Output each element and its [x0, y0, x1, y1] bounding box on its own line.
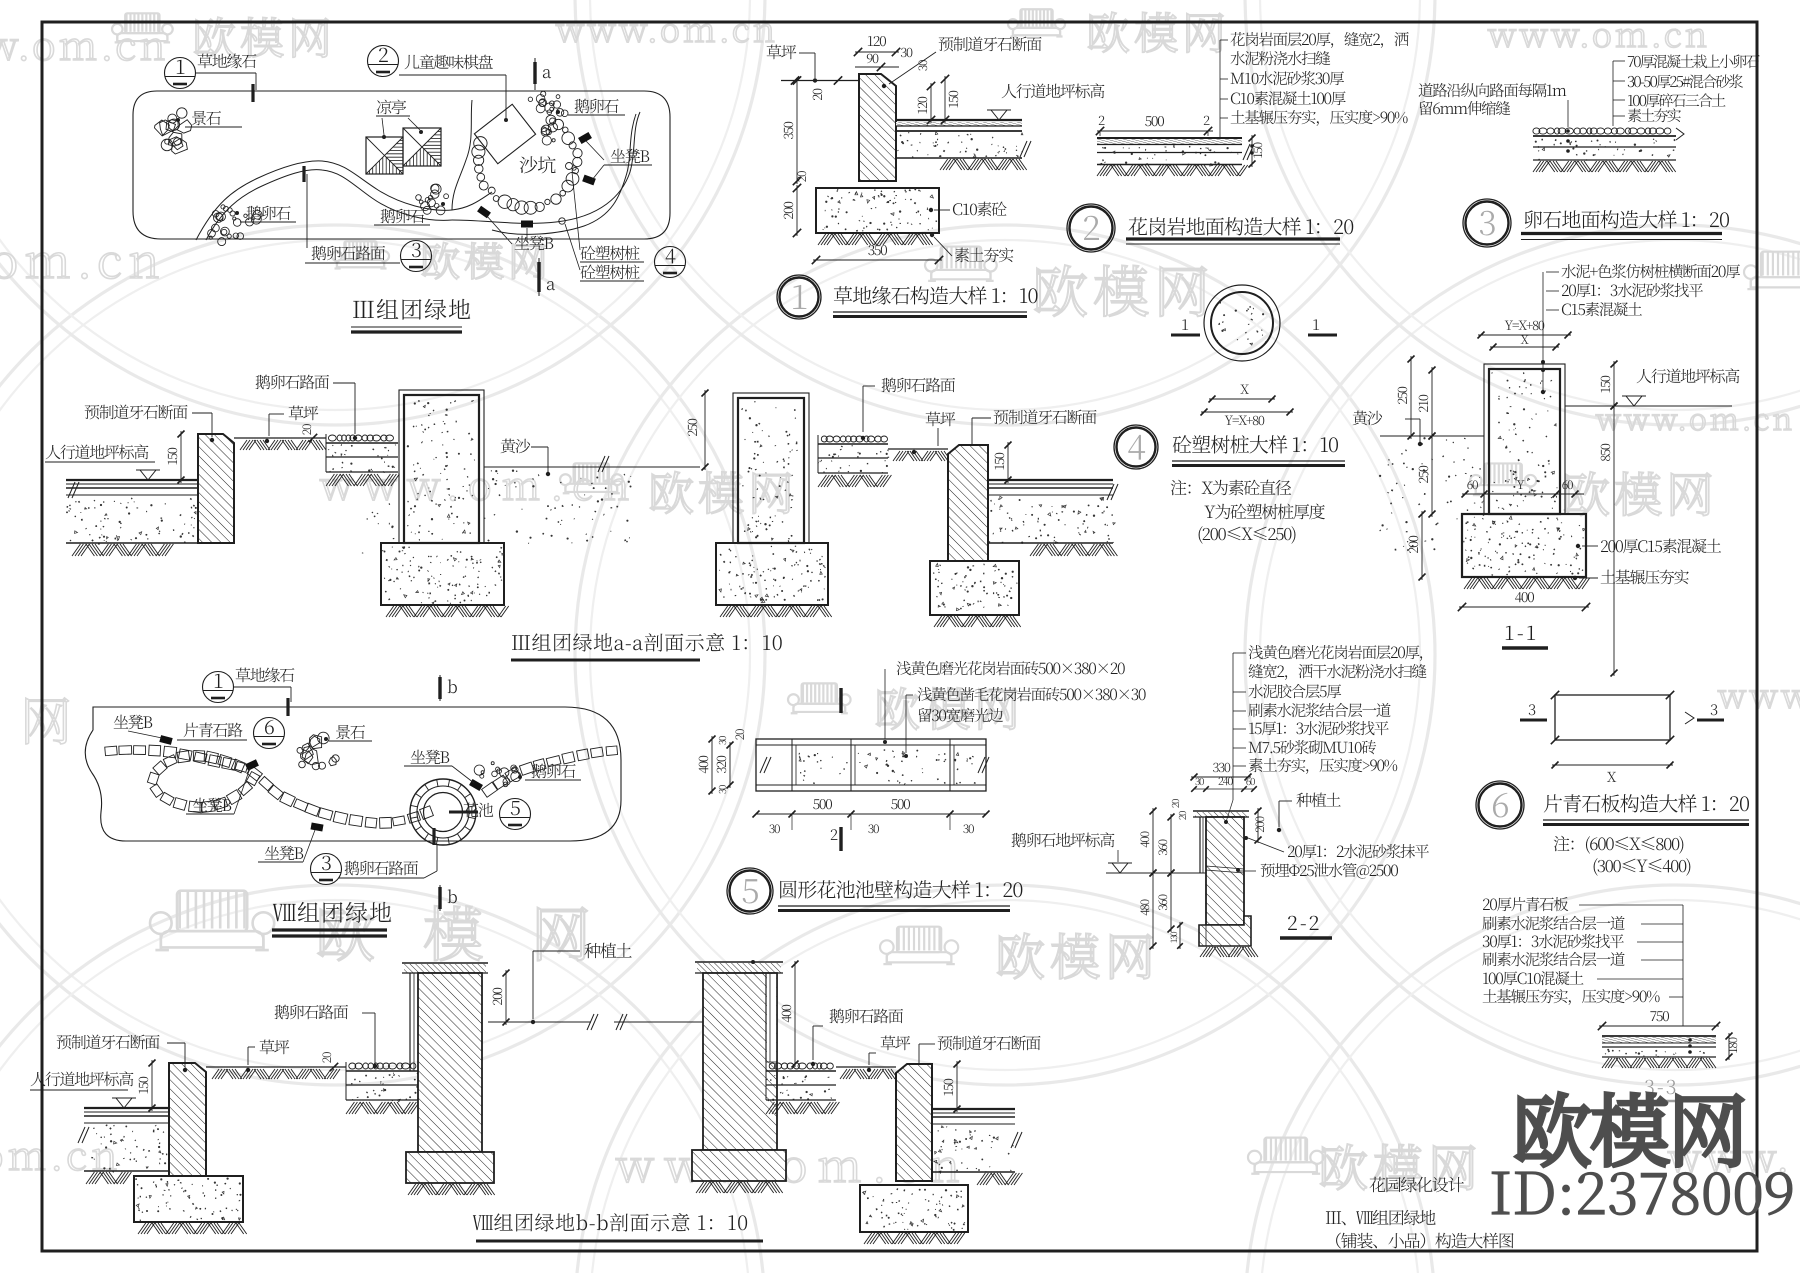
svg-text:人行道地坪标高: 人行道地坪标高 — [1636, 364, 1740, 387]
pebble pavement a-a left — [328, 435, 393, 441]
svg-text:750: 750 — [1650, 1006, 1670, 1026]
svg-text:400: 400 — [1136, 831, 1153, 847]
svg-text:2: 2 — [378, 39, 388, 68]
section marker b bottom — [439, 885, 441, 911]
svg-text:卵石地面构造大样 1：20: 卵石地面构造大样 1：20 — [1523, 204, 1729, 233]
detail 5 left dims — [711, 736, 713, 794]
svg-text:草地缘石构造大样 1：10: 草地缘石构造大样 1：10 — [833, 280, 1038, 309]
section 1-1 footing — [1462, 514, 1586, 577]
b-b left pool wall body — [418, 973, 482, 1152]
svg-text:素土夯实，压实度>90%: 素土夯实，压实度>90% — [1248, 754, 1398, 776]
svg-text:30: 30 — [714, 736, 729, 745]
svg-text:预制道牙石断面: 预制道牙石断面 — [937, 1031, 1041, 1054]
svg-text:（铺装、小品）构造大样图: （铺装、小品）构造大样图 — [1325, 1227, 1514, 1252]
2-2 tile strip left — [1199, 817, 1201, 873]
svg-text:4: 4 — [665, 240, 676, 269]
pebbles on lower path 鹅卵石 — [214, 213, 224, 223]
b-b right wall footing — [692, 1150, 786, 1181]
small stump circles — [566, 163, 573, 170]
svg-text:3: 3 — [1710, 699, 1718, 720]
detail 4 plan dims — [1209, 398, 1275, 400]
svg-text:240: 240 — [1218, 773, 1233, 789]
grass line a-a right — [888, 448, 948, 450]
svg-text:150: 150 — [943, 90, 962, 108]
svg-text:1: 1 — [175, 51, 185, 80]
svg-text:1: 1 — [1181, 314, 1189, 335]
svg-text:130: 130 — [1167, 931, 1180, 943]
section marker a top — [534, 58, 536, 90]
dims left 250 210 — [1410, 356, 1412, 439]
svg-text:预制道牙石断面: 预制道牙石断面 — [993, 405, 1097, 428]
svg-text:土基辗压夯实，压实度>90%: 土基辗压夯实，压实度>90% — [1482, 985, 1660, 1007]
svg-text:人行道地坪标高: 人行道地坪标高 — [30, 1067, 134, 1090]
b-b grass line left — [206, 1066, 346, 1068]
b-b left sidewalk — [84, 1107, 169, 1109]
svg-text:250: 250 — [682, 418, 701, 436]
svg-text:150: 150 — [133, 1076, 152, 1094]
svg-text:花池: 花池 — [463, 798, 494, 821]
svg-text:坐凳B: 坐凳B — [410, 745, 449, 768]
svg-text:3: 3 — [1528, 699, 1536, 720]
dim 60 Y 60 — [1462, 493, 1584, 495]
svg-text:坐凳B: 坐凳B — [113, 710, 152, 733]
title detail 4 — [1114, 425, 1158, 469]
stepping stone path VIII — [105, 746, 118, 756]
svg-text:种植土: 种植土 — [584, 937, 632, 962]
svg-text:b: b — [447, 883, 457, 908]
svg-text:草坪: 草坪 — [259, 1035, 290, 1058]
svg-text:200: 200 — [778, 201, 797, 219]
svg-text:Ⅲ组团绿地a-a剖面示意 1：10: Ⅲ组团绿地a-a剖面示意 1：10 — [511, 627, 783, 656]
svg-text:鹅卵石路面: 鹅卵石路面 — [274, 1000, 349, 1023]
detail 2: pavement section — [1097, 137, 1242, 139]
callout 4 circle — [655, 247, 686, 278]
surface line right (sidewalk level) — [1565, 405, 1732, 407]
svg-text:20: 20 — [1167, 799, 1182, 808]
dim 400 right wall — [794, 961, 796, 1067]
b-b left wall tile strip — [409, 973, 411, 1071]
svg-text:60: 60 — [1467, 476, 1478, 493]
b-b right curb — [896, 1064, 932, 1181]
svg-text:鹅卵石路面: 鹅卵石路面 — [344, 856, 419, 879]
svg-text:30: 30 — [868, 820, 879, 837]
2-2 top dims — [1191, 776, 1251, 778]
dim 150 (a-a left curb) — [180, 431, 182, 483]
svg-text:20: 20 — [731, 729, 748, 740]
svg-text:(200≤X≤250): (200≤X≤250) — [1197, 520, 1296, 545]
callout 1 草地缘石 VIII — [203, 672, 234, 703]
b-b right pool wall body — [703, 973, 777, 1150]
b-b right wall tile strip — [767, 974, 776, 1061]
svg-text:种植土: 种植土 — [1296, 788, 1341, 811]
pebbles middle 鹅卵石 — [423, 206, 431, 214]
svg-text:500: 500 — [891, 794, 911, 814]
svg-text:350: 350 — [868, 240, 888, 260]
b-b left pool wall cap — [404, 964, 486, 973]
rocks 景石 VIII — [329, 757, 337, 766]
svg-text:预制道牙石断面: 预制道牙石断面 — [84, 400, 188, 423]
detail 4: plan circle — [1204, 285, 1280, 361]
detail 1: sidewalk pavement right — [896, 119, 1022, 121]
b-b right sidewalk — [932, 1108, 1015, 1110]
svg-text:人行道地坪标高: 人行道地坪标高 — [45, 440, 149, 463]
stump 2 footing — [716, 543, 828, 605]
2-2 right: planting soil — [1257, 808, 1259, 843]
b-b left wall footing — [406, 1152, 494, 1183]
2-2 footing step — [1199, 916, 1251, 946]
2-2 wall cap — [1195, 812, 1247, 817]
svg-text:6: 6 — [264, 711, 274, 740]
title detail 3 — [1463, 199, 1511, 247]
detail 1: precast curb hatched — [859, 74, 896, 181]
svg-text:400: 400 — [693, 755, 712, 773]
2-2 wall body hatched — [1206, 817, 1244, 925]
sidewalk a-a right — [988, 479, 1113, 481]
section marker b top — [439, 675, 441, 701]
svg-text:90: 90 — [866, 48, 879, 67]
svg-text:120: 120 — [912, 96, 931, 114]
svg-text:3: 3 — [411, 234, 421, 263]
svg-text:预埋Φ25泄水管@2500: 预埋Φ25泄水管@2500 — [1260, 859, 1398, 881]
svg-text:350: 350 — [778, 121, 797, 139]
svg-text:土基辗压夯实，压实度>90%: 土基辗压夯实，压实度>90% — [1230, 106, 1408, 128]
2-2 left dims — [1152, 808, 1154, 876]
dim 200 soil depth — [505, 970, 507, 1025]
svg-text:预制道牙石断面: 预制道牙石断面 — [56, 1030, 160, 1053]
section 1-1 dims top — [1478, 334, 1571, 336]
svg-text:鹅卵石地坪标高: 鹅卵石地坪标高 — [1011, 828, 1115, 851]
left dims 350 200 20 — [796, 78, 798, 185]
callout 1 草地缘石 (plan III) — [165, 58, 196, 89]
svg-text:2: 2 — [1082, 201, 1100, 250]
svg-text:250: 250 — [1392, 386, 1411, 404]
vertical dims 120 150 30 — [930, 83, 932, 123]
b-b right curb footing — [860, 1185, 968, 1232]
dim 120 / 90 30 top — [855, 51, 899, 53]
pebble pavement a-a right — [821, 436, 887, 442]
svg-text:坐凳B: 坐凳B — [192, 793, 231, 816]
svg-text:素土夯实: 素土夯实 — [954, 243, 1014, 266]
svg-text:www.om.cn: www.om.cn — [0, 15, 169, 72]
svg-text:30: 30 — [769, 820, 780, 837]
pebbles top right corner — [556, 109, 564, 117]
svg-text:30: 30 — [914, 60, 931, 71]
curb a-a right footing — [930, 561, 1019, 615]
svg-text:景石: 景石 — [335, 720, 366, 743]
svg-text:1: 1 — [790, 270, 808, 319]
callout 2 儿童趣味棋盘 — [368, 46, 399, 77]
svg-text:200厚C15素混凝土: 200厚C15素混凝土 — [1600, 534, 1722, 557]
svg-text:圆形花池池壁构造大样 1：20: 圆形花池池壁构造大样 1：20 — [778, 874, 1023, 903]
pebbles VIII right — [512, 767, 518, 773]
plan VIII boundary — [85, 707, 621, 841]
svg-text:坐凳B: 坐凳B — [610, 144, 649, 167]
svg-text:5: 5 — [741, 864, 759, 913]
svg-text:150: 150 — [1595, 375, 1614, 393]
sand area 黄沙 — [484, 466, 700, 468]
svg-text:凉亭: 凉亭 — [376, 95, 407, 118]
svg-text:草坪: 草坪 — [925, 407, 956, 430]
svg-text:花岗岩地面构造大样 1：20: 花岗岩地面构造大样 1：20 — [1128, 211, 1353, 240]
svg-text:草地缘石: 草地缘石 — [235, 663, 295, 686]
svg-text:草坪: 草坪 — [288, 401, 319, 424]
svg-text:预制道牙石断面: 预制道牙石断面 — [938, 32, 1042, 55]
stump 1 footing — [381, 543, 504, 605]
svg-text:草地缘石: 草地缘石 — [197, 49, 257, 72]
svg-text:鹅卵石: 鹅卵石 — [380, 204, 425, 227]
b-b planting soil line — [488, 1021, 591, 1023]
svg-text:180: 180 — [1724, 1037, 1741, 1053]
svg-text:20: 20 — [1174, 811, 1189, 820]
watermark logos row A — [112, 13, 173, 42]
2-2 level line — [1106, 872, 1206, 874]
svg-text:5: 5 — [510, 792, 520, 821]
flower pool 花池 plan — [410, 779, 476, 845]
svg-text:C10素砼: C10素砼 — [952, 197, 1007, 220]
dim 400 bottom — [1459, 606, 1589, 608]
dim 250 stump2 — [704, 390, 706, 470]
svg-text:400: 400 — [1515, 587, 1535, 607]
svg-text:浅黄色磨光花岗岩面砖500×380×20: 浅黄色磨光花岗岩面砖500×380×20 — [896, 657, 1125, 679]
svg-text:150: 150 — [989, 452, 1008, 470]
svg-text:鹅卵石路面: 鹅卵石路面 — [311, 241, 386, 264]
svg-text:2: 2 — [830, 824, 838, 845]
section marker a bottom — [538, 258, 540, 296]
svg-text:片青石路: 片青石路 — [183, 718, 243, 741]
plan III walkway path curves — [196, 161, 452, 240]
svg-text:欧模网: 欧模网 — [995, 918, 1160, 990]
svg-text:留6mm伸缩缝: 留6mm伸缩缝 — [1418, 97, 1510, 119]
svg-text:60: 60 — [1562, 476, 1573, 493]
detail 1: grass line left — [781, 80, 860, 82]
curb a-a right — [948, 445, 988, 561]
b-b left curb footing — [134, 1176, 243, 1222]
section a-a : left sidewalk — [66, 479, 198, 481]
svg-text:480: 480 — [1136, 899, 1153, 915]
plan III boundary rounded rect — [133, 91, 670, 239]
svg-text:www.om.cn: www.om.cn — [555, 3, 778, 52]
dim 150 right — [1251, 135, 1253, 167]
b-b right 150 dim — [956, 1061, 958, 1112]
svg-text:30-50厚25#混合砂浆: 30-50厚25#混合砂浆 — [1627, 71, 1743, 92]
svg-text:草坪: 草坪 — [766, 40, 797, 63]
svg-text:20: 20 — [298, 424, 315, 435]
svg-text:土基辗压夯实: 土基辗压夯实 — [1600, 565, 1690, 588]
svg-text:30: 30 — [900, 42, 913, 61]
svg-text:60: 60 — [1246, 773, 1255, 788]
pavilion 凉亭 — [366, 137, 403, 174]
dim 2 500 2 — [1097, 130, 1213, 132]
svg-text:200: 200 — [1403, 535, 1422, 553]
svg-text:Ⅷ组团绿地: Ⅷ组团绿地 — [272, 895, 393, 928]
dim X — [1552, 764, 1673, 766]
detail 3: pebble pavement section — [1533, 128, 1671, 134]
svg-text:30: 30 — [963, 820, 974, 837]
detail 1: footing C10 — [816, 188, 939, 233]
svg-text:坐凳B: 坐凳B — [264, 841, 303, 864]
watermark arcs — [0, 225, 765, 1085]
sand pit ring of pebbles 沙坑 — [546, 115, 556, 125]
svg-text:鹅卵石路面: 鹅卵石路面 — [829, 1004, 904, 1027]
svg-text:浅黄色凿毛花岗岩面砖500×380×30: 浅黄色凿毛花岗岩面砖500×380×30 — [917, 683, 1146, 705]
svg-text:Y: Y — [1517, 476, 1525, 493]
path around sand pit — [452, 192, 492, 210]
svg-text:Y=X+80: Y=X+80 — [1224, 410, 1264, 429]
chessboard 儿童趣味棋盘 — [474, 104, 535, 163]
svg-text:360: 360 — [1154, 894, 1171, 910]
svg-text:鹅卵石: 鹅卵石 — [246, 201, 291, 224]
svg-text:1: 1 — [1312, 314, 1320, 335]
svg-text:200: 200 — [1251, 816, 1268, 832]
title detail 2 — [1067, 204, 1115, 252]
svg-text:400: 400 — [776, 1004, 795, 1022]
section 1-1 stump — [1484, 364, 1565, 514]
title detail 6 — [1476, 781, 1524, 829]
svg-text:250: 250 — [1413, 465, 1432, 483]
grass line a-a — [234, 437, 326, 439]
svg-text:沙坑: 沙坑 — [519, 151, 556, 178]
title detail 5 — [727, 868, 773, 914]
svg-text:鹅卵石: 鹅卵石 — [574, 94, 619, 117]
svg-text:砼塑树桩: 砼塑树桩 — [580, 260, 640, 283]
section marker 2 top/bottom — [839, 688, 842, 713]
svg-text:草坪: 草坪 — [880, 1031, 911, 1054]
curb a-a left — [198, 434, 234, 543]
svg-text:4: 4 — [1127, 420, 1145, 469]
svg-text:Ⅲ、Ⅷ组团绿地: Ⅲ、Ⅷ组团绿地 — [1325, 1204, 1436, 1229]
svg-text:儿童趣味棋盘: 儿童趣味棋盘 — [404, 50, 494, 73]
b-b pebble pavement left — [349, 1063, 416, 1069]
bottom dim 350 — [813, 259, 942, 261]
svg-text:Ⅷ组团绿地b-b剖面示意 1：10: Ⅷ组团绿地b-b剖面示意 1：10 — [472, 1207, 749, 1236]
dim 150 a-a right — [1007, 442, 1009, 483]
svg-text:黄沙: 黄沙 — [1352, 406, 1383, 429]
b-b pebble pavement right — [769, 1063, 833, 1069]
svg-text:Ⅲ组团绿地: Ⅲ组团绿地 — [352, 292, 472, 325]
svg-text:砼塑树桩大样 1：10: 砼塑树桩大样 1：10 — [1172, 429, 1338, 458]
svg-text:景石: 景石 — [191, 106, 222, 129]
detail 6 slab rect — [1555, 695, 1670, 740]
svg-text:片青石板构造大样 1：20: 片青石板构造大样 1：20 — [1543, 788, 1749, 817]
svg-text:www.om.cn: www.om.cn — [1595, 395, 1795, 439]
svg-text:人行道地坪标高: 人行道地坪标高 — [1001, 79, 1105, 102]
svg-text:欧模网: 欧模网 — [1086, 0, 1230, 62]
svg-text:鹅卵石路面: 鹅卵石路面 — [881, 373, 956, 396]
svg-text:X: X — [1240, 379, 1249, 398]
svg-text:20: 20 — [807, 88, 826, 101]
svg-text:ID:2378009: ID:2378009 — [1489, 1147, 1795, 1231]
svg-text:500: 500 — [1145, 111, 1165, 131]
svg-text:150: 150 — [162, 447, 181, 465]
svg-text:320: 320 — [711, 755, 730, 773]
svg-text:500: 500 — [813, 794, 833, 814]
svg-text:水泥粉浇水扫缝: 水泥粉浇水扫缝 — [1230, 47, 1330, 69]
svg-text:鹅卵石: 鹅卵石 — [531, 759, 576, 782]
svg-text:鹅卵石路面: 鹅卵石路面 — [255, 370, 330, 393]
dims left lower 250 200 — [1431, 433, 1433, 517]
benches 坐凳B (plan III) — [578, 132, 592, 144]
svg-text:2-2: 2-2 — [1287, 907, 1321, 936]
b-b right pool wall cap — [697, 963, 781, 973]
svg-text:30: 30 — [1195, 773, 1204, 788]
detail 5: wall plan strip — [756, 739, 986, 791]
svg-text:70厚混凝土栽上小卵石: 70厚混凝土栽上小卵石 — [1627, 51, 1760, 72]
svg-text:850: 850 — [1595, 443, 1614, 461]
svg-text:1: 1 — [213, 665, 223, 694]
svg-text:素土夯实: 素土夯实 — [1627, 105, 1682, 126]
sand surface left — [1380, 435, 1484, 437]
svg-text:(300≤Y≤400): (300≤Y≤400) — [1592, 852, 1691, 877]
svg-text:留30宽磨光边: 留30宽磨光边 — [917, 704, 1003, 726]
stump 1 a-a — [399, 390, 484, 543]
svg-text:www.om.cn: www.om.cn — [1487, 8, 1710, 57]
svg-text:注：X为素砼直径: 注：X为素砼直径 — [1170, 474, 1292, 499]
svg-text:花园绿化设计: 花园绿化设计 — [1369, 1171, 1464, 1196]
svg-text:M10水泥砂浆30厚: M10水泥砂浆30厚 — [1230, 67, 1344, 89]
svg-text:om.cn: om.cn — [0, 1125, 122, 1182]
svg-text:3: 3 — [321, 847, 331, 876]
svg-text:1-1: 1-1 — [1504, 617, 1538, 646]
svg-text:20: 20 — [318, 1052, 335, 1063]
svg-text:坐凳B: 坐凳B — [514, 231, 553, 254]
callout 3 VIII 鹅卵石路面 — [311, 854, 342, 885]
svg-text:6: 6 — [1491, 778, 1509, 827]
svg-text:30: 30 — [714, 785, 729, 794]
rock cluster 景石 (plan III) — [169, 132, 182, 146]
svg-text:欧模网: 欧模网 — [648, 458, 798, 524]
svg-text:150: 150 — [938, 1078, 957, 1096]
b-b grass right — [836, 1066, 896, 1068]
svg-text:3: 3 — [1478, 196, 1496, 245]
svg-text:360: 360 — [1154, 839, 1171, 855]
svg-text:缝宽2，洒干水泥粉浇水扫缝: 缝宽2，洒干水泥粉浇水扫缝 — [1248, 660, 1426, 682]
watermark logos row E — [150, 891, 274, 950]
title detail 1 — [777, 275, 821, 319]
benches VIII — [159, 735, 172, 745]
svg-text:网: 网 — [20, 680, 72, 755]
stump 2 a-a — [733, 393, 809, 543]
svg-text:20: 20 — [793, 171, 810, 182]
detail 5 bottom dims 500 500 30 — [756, 813, 986, 815]
svg-text:b: b — [447, 673, 457, 698]
dims right 150 850 — [1613, 361, 1615, 409]
b-b 150 dim — [151, 1060, 153, 1111]
svg-text:黄沙: 黄沙 — [500, 434, 531, 457]
svg-text:210: 210 — [1413, 394, 1432, 412]
b-b left curb — [169, 1063, 206, 1176]
svg-text:200: 200 — [487, 987, 506, 1005]
section 3-3 — [1599, 1025, 1719, 1027]
svg-text:C15素混凝土: C15素混凝土 — [1561, 298, 1642, 320]
